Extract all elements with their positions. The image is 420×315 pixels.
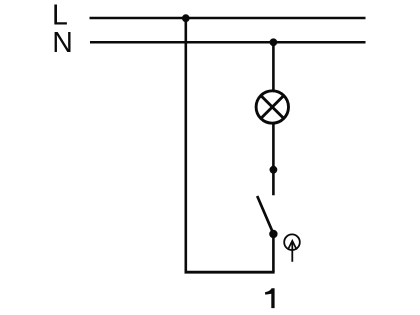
switch position label 1 <box>265 288 275 308</box>
pilot light indicator circle <box>284 234 300 250</box>
junction dot on N bus <box>270 38 278 46</box>
switch common node dot <box>269 230 277 238</box>
wire left vertical drop from L <box>185 18 188 272</box>
wire switch to bottom <box>272 234 275 272</box>
wire lamp to switch terminal <box>272 124 275 196</box>
wire N bus line <box>90 41 366 44</box>
wire lamp feed from N <box>272 42 275 90</box>
junction dot on L bus <box>182 14 190 22</box>
svg-text:N: N <box>52 27 73 59</box>
terminal node dot below lamp <box>270 166 278 174</box>
wire L bus line <box>90 17 366 20</box>
pilot light arrow stem <box>291 243 293 262</box>
pilot light arrowhead <box>288 241 297 250</box>
wire bottom horizontal <box>185 271 275 274</box>
lamp E1 <box>256 91 288 123</box>
switch S blade (open) <box>257 196 273 234</box>
